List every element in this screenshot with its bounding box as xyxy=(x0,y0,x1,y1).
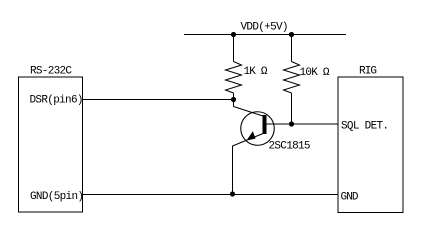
box RS-232C xyxy=(19,77,83,212)
svg-text:VDD(+5V): VDD(+5V) xyxy=(241,22,289,34)
transistor Q1 base bar xyxy=(263,115,267,134)
svg-text:SQL DET.: SQL DET. xyxy=(341,121,389,133)
resistor R1 1K lead bottom xyxy=(233,93,235,100)
svg-text:RIG: RIG xyxy=(359,66,377,78)
wire DSR to base node xyxy=(83,99,234,101)
transistor Q1 emitter arrow xyxy=(247,131,256,140)
svg-text:2SC1815: 2SC1815 xyxy=(269,140,311,152)
wire base to SQL DET xyxy=(267,123,339,125)
resistor R1 1K lead top xyxy=(233,35,235,62)
junction dot VDD/R1 xyxy=(231,32,236,37)
net VDD (+5V) rail xyxy=(184,34,346,36)
transistor Q1 2SC1815 circle xyxy=(241,112,275,146)
svg-text:DSR(pin6): DSR(pin6) xyxy=(30,94,84,106)
transistor Q1 emitter lead xyxy=(233,134,264,147)
svg-text:GND: GND xyxy=(341,191,359,203)
resistor R2 10K lead bottom xyxy=(291,93,293,124)
wire emitter down xyxy=(232,146,234,195)
svg-text:GND(5pin): GND(5pin) xyxy=(30,191,84,203)
svg-text:RS-232C: RS-232C xyxy=(30,66,72,78)
wire GND rail xyxy=(83,194,339,196)
box RIG xyxy=(338,77,403,213)
junction dot emitter/GND xyxy=(230,191,235,196)
wire collector link vertical xyxy=(233,100,235,107)
resistor R2 10K lead top xyxy=(291,35,293,62)
junction dot DSR/R1/collector xyxy=(231,97,236,102)
svg-text:10K Ω: 10K Ω xyxy=(300,67,330,79)
resistor R2 10K zigzag xyxy=(284,62,300,94)
resistor R1 1K zigzag xyxy=(226,62,242,94)
junction dot base/R2/SQL xyxy=(289,121,294,126)
wire collector link diagonal xyxy=(234,107,264,117)
junction dot VDD/R2 xyxy=(289,32,294,37)
svg-text:1K Ω: 1K Ω xyxy=(244,66,268,78)
